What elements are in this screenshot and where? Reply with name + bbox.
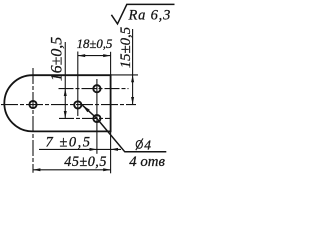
centerline vertical through hole A, extended down to 45-dim [32, 68, 34, 173]
hole D [93, 115, 100, 122]
dimension 7±0,5 line [39, 148, 121, 150]
centerline vertical through hole B, extension up to 18-dim [77, 52, 79, 117]
svg-text:45±0,5: 45±0,5 [64, 154, 107, 170]
hole C [93, 85, 100, 92]
extension line down from right edge for 45-dim and 7-dim [110, 131, 112, 173]
centerline vertical through holes C and D, extension down to 7-dim [96, 79, 98, 154]
svg-text:4 отв: 4 отв [129, 154, 165, 170]
svg-text:4: 4 [144, 137, 151, 152]
dimension 16±0,5 line [64, 42, 66, 119]
diameter symbol of leader text [136, 138, 143, 150]
hole A [29, 101, 36, 108]
svg-text:16±0,5: 16±0,5 [49, 37, 66, 81]
plate outline [4, 75, 110, 131]
surface finish symbol Ra 6,3 [111, 4, 174, 24]
svg-text:Ra 6,3: Ra 6,3 [128, 7, 172, 23]
svg-text:15±0,5: 15±0,5 [118, 27, 134, 68]
svg-text:7 ±0,5: 7 ±0,5 [46, 134, 92, 150]
centerline horizontal through holes A and B [1, 104, 136, 106]
extension of top edge to the right for 15-dim [111, 74, 138, 76]
svg-text:18±0,5: 18±0,5 [77, 37, 113, 51]
dimension 18±0,5 line [78, 55, 111, 57]
dimension 45±0,5 line [33, 169, 111, 171]
dimension 15±0,5 line [132, 29, 134, 104]
extension line up from right edge for 18-dim [110, 52, 112, 75]
centerline horizontal through hole C [59, 88, 129, 90]
leader arrowhead pointing at hole B [82, 105, 89, 112]
centerline horizontal through hole D [59, 117, 110, 119]
hole B [74, 101, 81, 108]
leader line for hole diameter callout [82, 105, 166, 152]
